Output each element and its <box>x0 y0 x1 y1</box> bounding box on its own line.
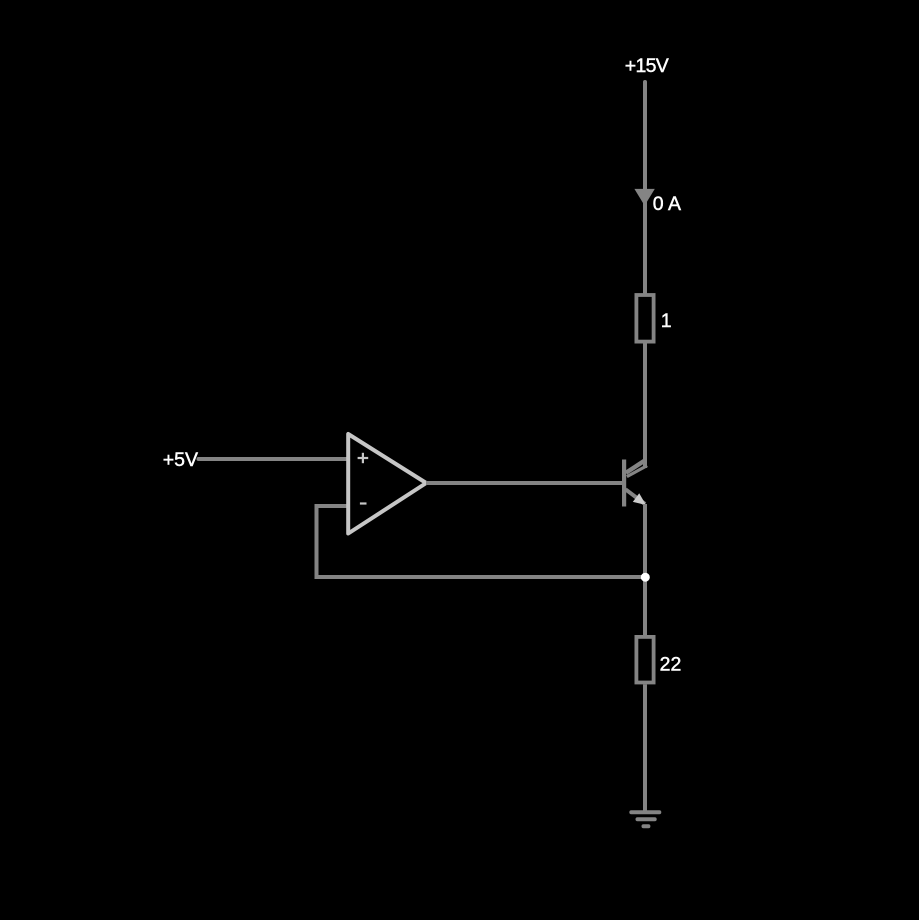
wire R22 to ground <box>643 685 647 813</box>
svg-text:+5V: +5V <box>163 449 198 471</box>
resistor R22 <box>636 637 653 683</box>
wire op-amp output to base <box>426 481 622 485</box>
op-amp U1 plus input mark <box>358 453 369 463</box>
svg-text:1: 1 <box>661 310 672 332</box>
svg-text:+15V: +15V <box>625 55 669 77</box>
wire +15V rail to resistor R1 <box>643 82 647 293</box>
op-amp U1 body <box>348 434 426 534</box>
wire +5V source to op-amp non-inverting input <box>199 457 348 461</box>
svg-text:22: 22 <box>660 654 682 676</box>
feedback wire emitter node to op-amp inverting input <box>317 506 646 577</box>
ammeter arrow <box>634 189 654 206</box>
transistor Q1 emitter arrow <box>633 493 646 505</box>
wire R1 to collector <box>643 343 647 468</box>
transistor Q1 collector lead <box>626 460 645 472</box>
wire emitter to R22 <box>643 504 647 637</box>
ground <box>631 812 659 826</box>
transistor Q1 base bar <box>622 460 626 507</box>
svg-text:0 A: 0 A <box>653 193 681 215</box>
op-amp U1 minus input mark <box>360 502 367 504</box>
junction dot node E <box>641 573 650 582</box>
resistor R1 <box>636 295 653 342</box>
transistor Q1 emitter lead <box>626 489 646 504</box>
